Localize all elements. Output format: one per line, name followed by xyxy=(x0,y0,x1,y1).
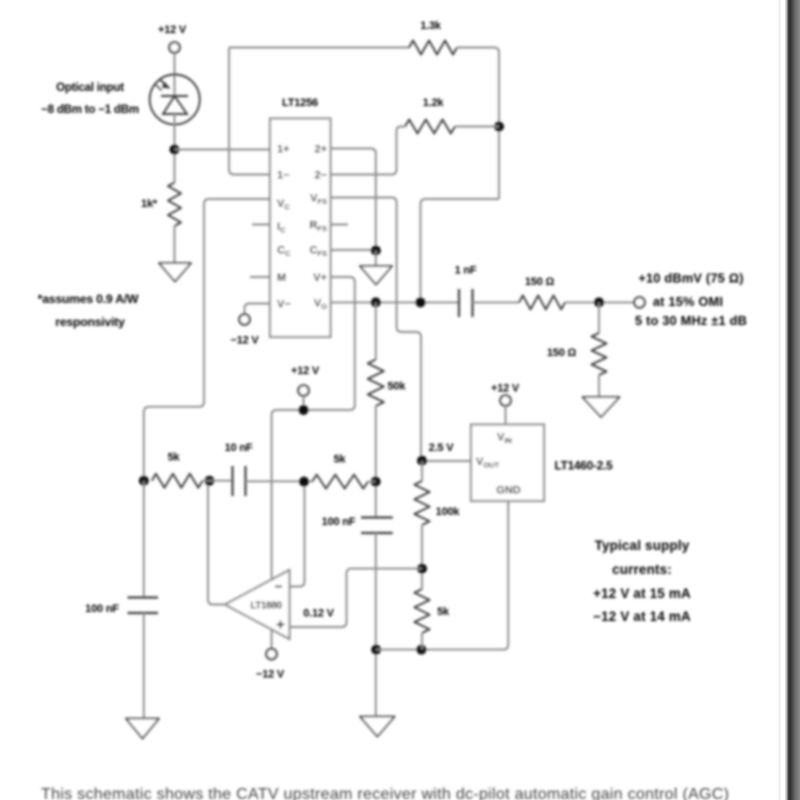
ground under CFS xyxy=(360,266,392,285)
node 50k / 5k / 100nF xyxy=(371,477,381,487)
wire V- supply xyxy=(245,304,271,315)
wire shunt 150 to ground xyxy=(598,375,600,397)
frame inner edge line xyxy=(779,0,781,800)
ground bottom left xyxy=(126,719,159,739)
svg-text:M: M xyxy=(277,272,286,284)
svg-text:−12 V: −12 V xyxy=(256,669,285,681)
svg-text:1−: 1− xyxy=(277,170,290,182)
svg-text:Typical supply: Typical supply xyxy=(595,538,690,553)
svg-text:1+: 1+ xyxy=(277,144,290,156)
resistor 1k* xyxy=(168,183,181,227)
terminal +12V LT1460 xyxy=(500,395,510,405)
svg-text:at 15% OMI: at 15% OMI xyxy=(653,294,723,309)
node VC filter xyxy=(139,476,149,486)
wire divider tap to op-amp + xyxy=(290,569,423,627)
wire shunt 150 riser xyxy=(598,302,600,333)
resistor R 150 ohm shunt xyxy=(592,333,607,375)
svg-text:−12 V: −12 V xyxy=(230,335,259,347)
svg-text:V−: V− xyxy=(277,299,291,311)
stub op-amp V- supply xyxy=(271,630,273,650)
svg-text:Optical input: Optical input xyxy=(56,82,124,94)
node +12V supply junction xyxy=(299,405,309,415)
svg-text:2.5 V: 2.5 V xyxy=(429,442,455,454)
stub IC pin xyxy=(252,224,270,226)
svg-text:5k: 5k xyxy=(334,454,347,466)
capacitor C 1nF xyxy=(459,289,473,317)
wire cap to 150 xyxy=(473,301,520,303)
node output junction xyxy=(594,297,604,307)
node ground row left xyxy=(371,645,381,655)
wire 5k to ground row xyxy=(421,633,423,650)
terminal +12V mid xyxy=(298,385,308,395)
wire VC control path xyxy=(144,199,270,481)
wire 2+ to ground node xyxy=(331,149,376,251)
svg-text:1.2k: 1.2k xyxy=(423,97,445,109)
wire VFS path down xyxy=(331,198,422,461)
wire VO to 50k xyxy=(375,302,377,359)
terminal RF output xyxy=(634,297,644,307)
capacitor C 10nF xyxy=(233,466,246,496)
svg-text:5k: 5k xyxy=(437,606,450,618)
svg-text:currents:: currents: xyxy=(612,562,672,577)
op-amp U2 LT1880 body xyxy=(225,570,290,639)
svg-text:150 Ω: 150 Ω xyxy=(525,276,555,288)
wire op-amp - input riser xyxy=(290,482,305,587)
svg-text:100 nF: 100 nF xyxy=(85,603,119,615)
svg-text:+12 V: +12 V xyxy=(158,24,187,36)
svg-text:+10 dBmV (75 Ω): +10 dBmV (75 Ω) xyxy=(638,271,743,286)
svg-text:50k: 50k xyxy=(388,381,407,393)
svg-text:100 nF: 100 nF xyxy=(322,516,356,528)
resistor R 1.2k xyxy=(405,120,455,134)
svg-text:*assumes 0.9 A/W: *assumes 0.9 A/W xyxy=(38,292,139,306)
wire 5k to 10nF xyxy=(203,480,233,482)
wire photodiode anode lead xyxy=(174,53,176,97)
wire photodiode cathode to node xyxy=(174,114,176,183)
wire VO output row xyxy=(331,301,460,303)
ground bottom middle xyxy=(360,717,395,737)
svg-text:1 nF: 1 nF xyxy=(455,265,477,277)
stub VIN supply xyxy=(505,406,507,425)
node divider tap xyxy=(417,564,427,574)
wire 50k to 100nF xyxy=(375,406,377,518)
wire 1.2k to 2- xyxy=(331,127,406,175)
svg-text:2+: 2+ xyxy=(314,144,327,156)
svg-text:LT1256: LT1256 xyxy=(282,97,318,109)
stub M pin xyxy=(250,276,270,278)
wire top feedback to 1.3k xyxy=(229,47,410,49)
right drop shadow xyxy=(785,0,800,800)
resistor R 5k mid xyxy=(312,475,368,489)
svg-text:5 to 30 MHz ±1 dB: 5 to 30 MHz ±1 dB xyxy=(635,313,747,328)
svg-text:V+: V+ xyxy=(313,272,327,284)
wire 1k to ground xyxy=(174,226,176,263)
svg-text:2−: 2− xyxy=(314,170,327,182)
svg-text:LT1880: LT1880 xyxy=(250,601,282,612)
resistor R 100k xyxy=(414,481,429,525)
stub +12V mid xyxy=(303,396,305,411)
node feedback junction xyxy=(494,122,504,132)
wire GND pin return xyxy=(376,501,508,650)
terminal +12V photodiode xyxy=(169,42,179,52)
capacitor C 100nF mid xyxy=(361,518,393,534)
wire 2.5V to 100k xyxy=(421,461,423,481)
svg-text:+12 V: +12 V xyxy=(291,365,320,377)
svg-text:1.3k: 1.3k xyxy=(420,20,442,32)
wire ground stub CFS xyxy=(375,251,377,267)
wire V+ supply path xyxy=(272,277,355,581)
svg-text:−8 dBm to −1 dBm: −8 dBm to −1 dBm xyxy=(41,104,139,116)
svg-text:−12 V at 14 mA: −12 V at 14 mA xyxy=(593,609,691,624)
node VO / feedback xyxy=(416,297,426,307)
svg-text:1k*: 1k* xyxy=(141,198,158,210)
terminal -12V op-amp xyxy=(266,649,276,659)
terminal -12V LT1256 xyxy=(239,314,249,324)
wire 1.2k right lead xyxy=(455,126,499,128)
ground under 1k xyxy=(159,263,191,282)
ground under output shunt xyxy=(583,397,620,417)
wire 1- feedback riser xyxy=(229,48,270,175)
resistor R 50k xyxy=(368,360,384,407)
resistor R 5k left xyxy=(152,474,203,488)
node ground row right xyxy=(416,645,426,655)
capacitor C 100nF left xyxy=(128,598,159,614)
svg-text:+12 V at 15 mA: +12 V at 15 mA xyxy=(593,586,691,601)
svg-text:0.12 V: 0.12 V xyxy=(303,608,334,620)
resistor R 5k divider xyxy=(414,589,429,633)
svg-text:This schematic shows the CATV: This schematic shows the CATV upstream r… xyxy=(41,786,729,800)
wire CFS to ground node xyxy=(331,249,376,251)
node photodiode / 1+ junction xyxy=(170,145,180,155)
wire op-amp output riser xyxy=(208,481,225,605)
wire 150 to output terminal xyxy=(565,301,635,303)
stub RFS xyxy=(331,224,349,226)
svg-text:GND: GND xyxy=(496,485,521,497)
wire 100k to 5k xyxy=(421,525,423,589)
node op-amp out / 10nF xyxy=(205,476,215,486)
svg-text:responsivity: responsivity xyxy=(55,315,125,329)
op-amp minus marker xyxy=(275,586,282,588)
wire 100nF to ground row xyxy=(375,533,377,717)
node VO / 50k xyxy=(371,297,381,307)
resistor R 1.3k xyxy=(409,41,457,55)
wire VC node down to 100nF xyxy=(143,481,145,598)
svg-text:10 nF: 10 nF xyxy=(225,442,253,454)
wire VOUT to divider xyxy=(422,460,471,462)
svg-text:100k: 100k xyxy=(436,506,461,518)
wire feedback down to VO node xyxy=(421,199,500,302)
regulator U3 LT1460-2.5 body xyxy=(471,425,544,502)
node 2.5V xyxy=(417,456,427,466)
resistor R 150 ohm series xyxy=(519,295,565,309)
svg-text:150 Ω: 150 Ω xyxy=(547,347,577,359)
wire 1+ input xyxy=(175,149,271,151)
photodiode D1 body xyxy=(150,75,200,125)
wire 5k mid right lead xyxy=(368,481,376,483)
op-amp plus marker xyxy=(277,621,285,629)
wire 100nF left to ground xyxy=(143,613,145,719)
wire 10nF to 5k mid xyxy=(246,480,313,482)
op-amp U1 LT1256 body xyxy=(270,119,331,338)
svg-text:LT1460-2.5: LT1460-2.5 xyxy=(554,459,613,473)
wire 1.3k to right node xyxy=(457,48,499,200)
node 2+/CFS ground junction xyxy=(371,246,381,256)
node op-amp - input junction xyxy=(299,477,309,487)
svg-text:+12 V: +12 V xyxy=(491,383,520,395)
svg-text:5k: 5k xyxy=(168,452,181,464)
